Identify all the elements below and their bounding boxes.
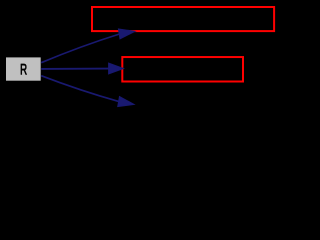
node R (grey box) [6, 57, 41, 80]
node middle (red box) [122, 57, 243, 81]
arrowhead R->top [118, 29, 135, 39]
edge R->hidden (wire) [41, 76, 119, 102]
node top (red box) [92, 7, 274, 31]
edge R->top (wire) [41, 34, 119, 63]
edge R->middle (wire) [41, 68, 110, 70]
arrowhead R->hidden [118, 96, 135, 106]
arrowhead R->middle [109, 63, 124, 74]
